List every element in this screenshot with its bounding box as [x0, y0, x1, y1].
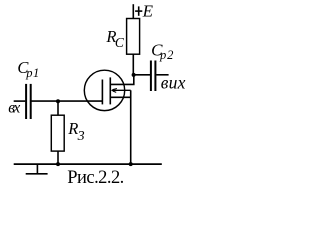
- svg-text:p1: p1: [25, 66, 39, 80]
- ground: [26, 164, 48, 174]
- resistor R3: [51, 115, 64, 151]
- node drain junction dot: [132, 73, 136, 77]
- wire: ground rail: [14, 163, 162, 165]
- wire: output node to Cp2 left plate: [133, 74, 150, 76]
- wire: Cp1 right plate to gate: [32, 100, 103, 102]
- transistor VT1 channel: [109, 77, 111, 104]
- transistor VT1 gate electrode: [101, 80, 103, 105]
- wire: source down to ground rail: [130, 90, 132, 164]
- svg-text:вих: вих: [161, 72, 186, 92]
- capacitor Cp1 label: [17, 58, 39, 80]
- svg-text:p2: p2: [159, 48, 173, 62]
- resistor RC value label: [105, 27, 125, 50]
- svg-text:C: C: [115, 35, 125, 50]
- resistor R3 value label: [67, 119, 84, 144]
- wire: +E supply lead down to Rc top: [132, 4, 134, 18]
- capacitor Cp1: [26, 84, 31, 119]
- wire: Cp2 right plate to output terminal: [156, 74, 168, 76]
- wire: source lead: [111, 96, 131, 98]
- svg-text:E: E: [142, 1, 154, 20]
- node source rail junction dot: [129, 162, 133, 166]
- svg-text:Рис.2.2.: Рис.2.2.: [67, 168, 124, 188]
- wire: junction down to R3 top: [57, 101, 59, 115]
- svg-text:3: 3: [77, 129, 85, 144]
- resistor RC: [127, 19, 140, 55]
- wire: input terminal to Cp1 left plate: [14, 100, 26, 102]
- capacitor Cp2 label: [151, 40, 173, 62]
- svg-text:вх: вх: [8, 99, 20, 116]
- transistor VT1 substrate lead with arrow: [111, 89, 131, 93]
- node gate junction dot: [56, 99, 60, 103]
- wire: drain lead up to output node: [111, 75, 134, 85]
- wire: Rc bottom to output node: [132, 54, 134, 75]
- transistor VT1 circle: [84, 70, 124, 110]
- node +E label: [135, 1, 154, 20]
- capacitor Cp2: [151, 61, 156, 92]
- wire: R3 bottom to ground rail: [57, 151, 59, 164]
- node R3 rail junction dot: [56, 162, 60, 166]
